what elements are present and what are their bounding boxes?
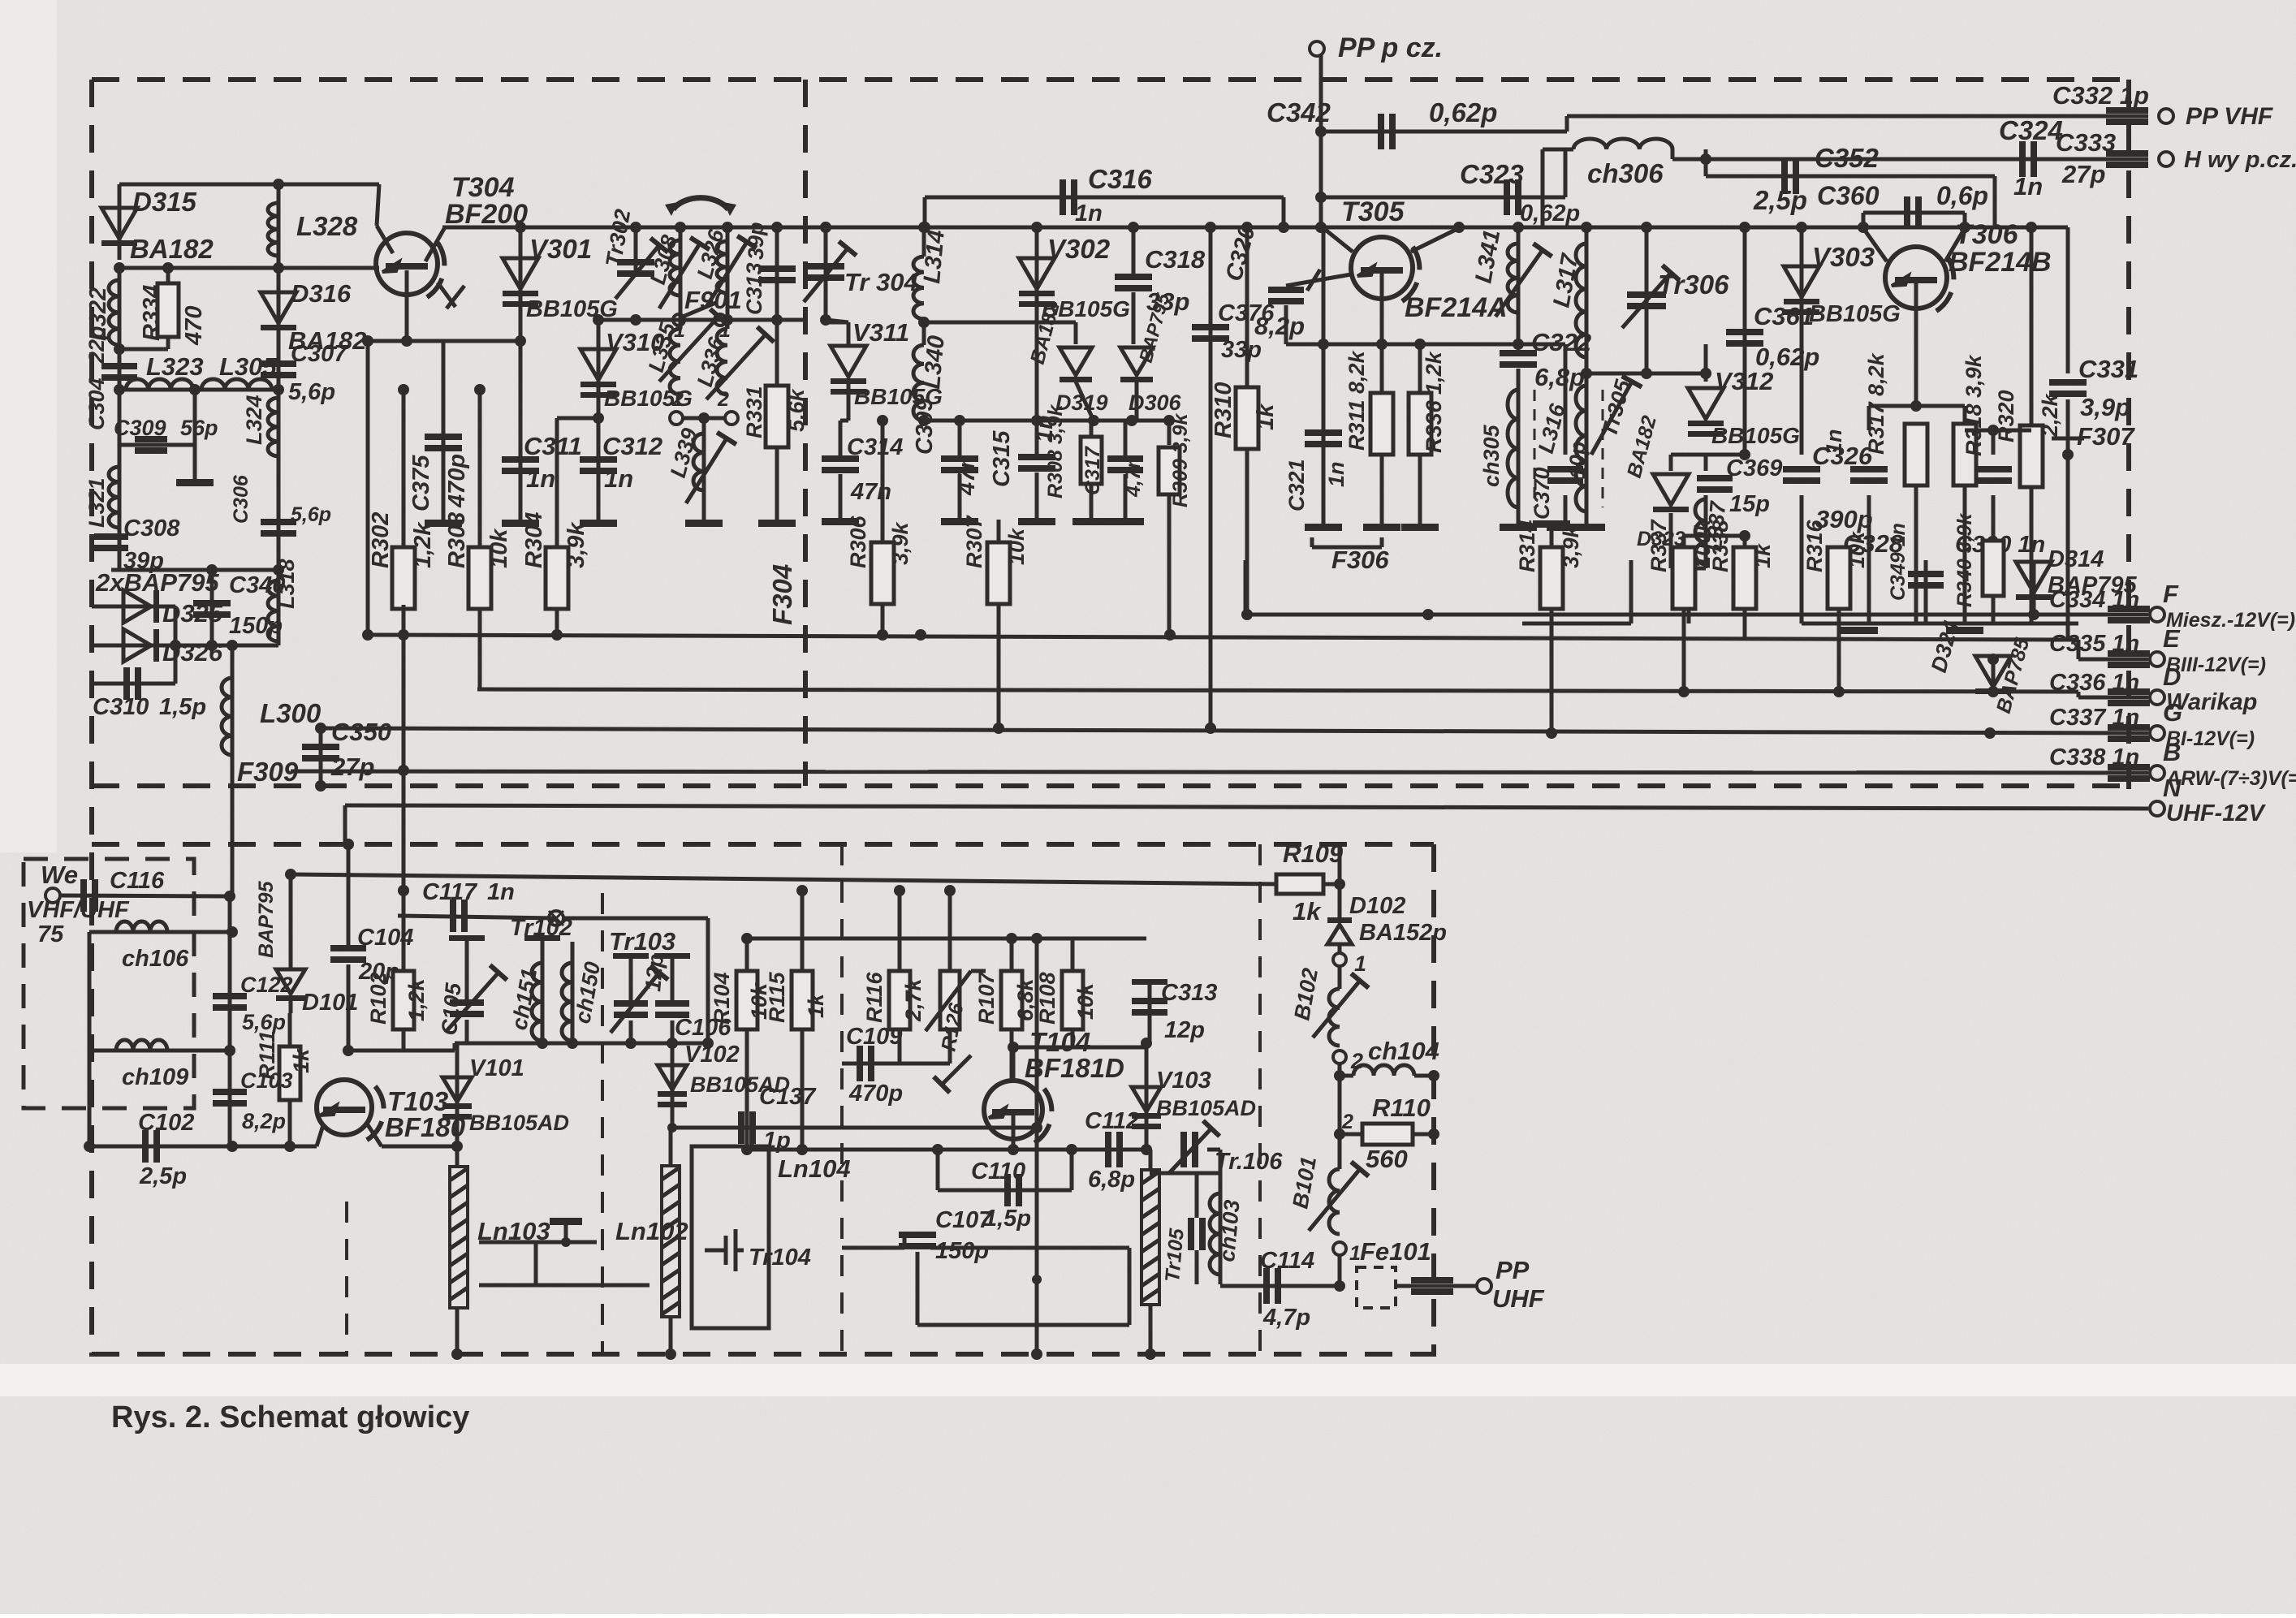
diode D319 BA182	[1074, 322, 1078, 344]
capacitor C106	[671, 958, 675, 1003]
node Tr102	[549, 911, 563, 925]
capacitor C317 4,7n	[1124, 421, 1128, 458]
svg-text:8,2p: 8,2p	[242, 1109, 286, 1133]
svg-text:1: 1	[1354, 951, 1366, 976]
inductor ch104	[1353, 1065, 1414, 1076]
svg-text:Tr306: Tr306	[1658, 270, 1729, 300]
capacitor C352 2,5p	[1781, 158, 1799, 194]
diode V311 BB105G	[847, 322, 851, 344]
dashed box: We VHF/UHF input	[24, 859, 194, 1108]
capacitor C307 56p	[277, 357, 281, 390]
transistor T103 BF180	[317, 1080, 384, 1143]
svg-text:C375: C375	[408, 455, 434, 511]
svg-text:L324: L324	[242, 395, 266, 445]
bus B (ARW)	[291, 771, 2148, 773]
wire T304 emitter lead up-left	[377, 184, 379, 226]
diode V101 BB105AD	[455, 1043, 460, 1146]
wire R108 bottom to V103 column	[1072, 1046, 1146, 1050]
diode D306 BAP795	[1132, 292, 1136, 344]
diode D316 BA182	[277, 268, 281, 357]
svg-text:R316: R316	[1802, 519, 1827, 572]
capacitor C308 39p	[118, 532, 122, 568]
svg-text:BB105G: BB105G	[1711, 423, 1800, 448]
svg-text:Tr105: Tr105	[1161, 1227, 1189, 1284]
svg-text:VHF/UHF: VHF/UHF	[27, 897, 130, 923]
svg-text:V102: V102	[684, 1042, 740, 1068]
svg-text:B: B	[2163, 738, 2181, 766]
svg-text:470p: 470p	[848, 1081, 903, 1107]
wire T104 emitter top	[1012, 1047, 1016, 1081]
capacitor C361 0,62p	[1743, 227, 1747, 455]
svg-text:4,7p: 4,7p	[1262, 1305, 1310, 1331]
wire C102 row y=1412	[89, 1145, 317, 1149]
wire B101 to bottom row	[1338, 1255, 1342, 1286]
wire L341 column	[1517, 227, 1521, 344]
svg-text:ch104: ch104	[1368, 1037, 1439, 1065]
svg-text:10k: 10k	[486, 528, 512, 568]
transistor T305 BF214A	[1351, 237, 1419, 304]
diode V102 BB105AD	[671, 1043, 675, 1128]
capacitor C350 27p	[319, 728, 323, 786]
svg-text:C335 1n: C335 1n	[2049, 631, 2139, 657]
svg-text:1n: 1n	[2013, 172, 2043, 201]
wire V102 bottom row / C137	[672, 1126, 1037, 1130]
svg-text:5,6p: 5,6p	[291, 503, 331, 526]
svg-text:1,2k: 1,2k	[404, 977, 429, 1021]
dashed mechanical link x=427	[345, 1202, 348, 1357]
svg-text:C103: C103	[240, 1068, 293, 1093]
wire F307 to BIII bus	[2066, 455, 2070, 640]
svg-text:Tr103: Tr103	[609, 927, 675, 956]
svg-text:T305: T305	[1341, 196, 1405, 227]
wire C352 riser right	[1993, 176, 1997, 227]
capacitor C315 1n	[1035, 421, 1039, 455]
svg-text:PP VHF: PP VHF	[2186, 103, 2273, 130]
dashed border: upper box top edge	[92, 77, 2129, 82]
diode D101 BAP795	[289, 874, 293, 968]
wire jog C342-PPVHF	[1565, 116, 1569, 132]
svg-text:ch106: ch106	[122, 946, 189, 972]
wire D323/L337 bottoms	[1669, 513, 1673, 568]
terminal F Miesz	[2150, 607, 2164, 622]
svg-text:R309 3,9k: R309 3,9k	[1169, 413, 1192, 507]
resistor R108 10k	[1071, 938, 1075, 974]
capacitor C313b 12p	[1148, 982, 1152, 1043]
svg-text:R304: R304	[521, 512, 547, 568]
capacitor C376 33p	[1209, 227, 1213, 728]
svg-text:Tr 304: Tr 304	[844, 268, 918, 296]
svg-text:1n: 1n	[1822, 429, 1846, 455]
svg-text:L328: L328	[296, 211, 358, 241]
diode D314 BAP795	[2032, 560, 2036, 615]
diode D315 BA182	[118, 184, 122, 260]
resistor R104 10k	[745, 938, 749, 974]
capacitor C337 1n	[2108, 724, 2150, 742]
svg-text:R320: R320	[1994, 390, 2018, 442]
resistor R314 3,9k	[1550, 524, 1554, 548]
diode D325 BAP795	[92, 605, 175, 609]
svg-text:3,9k: 3,9k	[888, 520, 913, 565]
dashed border: lower box right edge	[1431, 844, 1436, 1357]
inductor B101 variable	[1338, 1134, 1342, 1169]
svg-text:75: 75	[37, 921, 64, 947]
resonator box Ln104	[692, 1146, 769, 1328]
svg-text:V302: V302	[1047, 234, 1111, 264]
svg-text:C105: C105	[437, 982, 466, 1037]
svg-text:C333: C333	[2056, 128, 2116, 157]
svg-text:C337 1n: C337 1n	[2049, 705, 2139, 731]
svg-text:R334: R334	[139, 285, 165, 341]
transformer Fe101 dashed box	[1357, 1267, 1396, 1308]
resistor R338 1k	[1743, 536, 1747, 548]
svg-text:6,8k: 6,8k	[1013, 977, 1038, 1021]
inductor ch306	[1573, 139, 1672, 149]
svg-text:C399: C399	[912, 399, 938, 455]
diode V302 BB105G	[1035, 227, 1039, 322]
bus E (BIII-12V)	[368, 635, 2078, 640]
capacitor C117 1n	[450, 900, 468, 932]
svg-text:Ln102: Ln102	[615, 1217, 688, 1245]
svg-text:PP: PP	[1495, 1256, 1530, 1284]
capacitor C313 39p	[775, 227, 779, 320]
inductor L322	[118, 268, 122, 357]
inductor L339	[702, 418, 706, 520]
svg-text:C361: C361	[1754, 302, 1814, 330]
svg-text:1n: 1n	[487, 879, 515, 905]
svg-text:5,6k: 5,6k	[784, 387, 809, 432]
svg-text:V301: V301	[529, 234, 592, 264]
inductor L335	[679, 320, 683, 329]
svg-text:L314: L314	[919, 229, 950, 285]
node D315/L322	[114, 262, 125, 274]
bus F (Miesz-12V)	[1246, 613, 2148, 617]
svg-text:C107: C107	[935, 1207, 993, 1233]
svg-text:R109: R109	[1283, 839, 1344, 868]
diode V310 BB105G varicap	[597, 320, 601, 418]
bus N (UHF-12V)	[345, 805, 2148, 809]
wire D-box right	[174, 606, 178, 645]
wire R102 bottom row to C105	[348, 1049, 455, 1053]
svg-text:R308 3,9k: R308 3,9k	[1044, 404, 1067, 498]
svg-text:D102: D102	[1349, 893, 1405, 919]
wire C342 branch	[1321, 130, 1567, 134]
capacitor C306 5,6p	[277, 463, 281, 570]
wire T306 base down	[1914, 283, 1918, 406]
capacitor C107 150p	[842, 1246, 904, 1250]
svg-text:Tr104: Tr104	[749, 1245, 811, 1271]
inductor L337	[1704, 495, 1708, 568]
terminal PP UHF	[1477, 1279, 1491, 1293]
wire left column to C102	[88, 1051, 92, 1146]
dashed divider F304	[803, 80, 808, 786]
svg-text:H wy p.cz.: H wy p.cz.	[2184, 147, 2296, 173]
svg-text:D314: D314	[2048, 546, 2104, 572]
vertical x=1277 lower	[1035, 938, 1039, 1128]
svg-text:R311 8,2k: R311 8,2k	[1344, 349, 1369, 451]
wire T304 collector lead to bus	[425, 227, 445, 261]
resistor R109 1k	[1276, 874, 1323, 894]
wire R302 column down through buses	[402, 605, 406, 974]
inductor ch106	[89, 930, 232, 934]
svg-text:BAP795: BAP795	[255, 880, 278, 958]
switch F901 arc	[673, 198, 728, 209]
svg-text:4,7n: 4,7n	[1122, 456, 1145, 498]
capacitor C312 1n	[597, 418, 601, 520]
wire D102 column from dashed top	[1338, 844, 1342, 921]
svg-text:Tr.106: Tr.106	[1215, 1149, 1283, 1175]
wire T305 emitter lead	[1323, 228, 1353, 252]
capacitor C310 1,5p	[92, 682, 175, 686]
wire R334 bottom to L322	[119, 347, 168, 352]
wire ch306 riser	[1564, 149, 1568, 197]
diode V301 BB105G varicap	[519, 227, 523, 341]
svg-text:1: 1	[719, 319, 731, 342]
terminal N UHF-12V	[2150, 801, 2164, 816]
svg-text:Miesz.-12V(=): Miesz.-12V(=)	[2166, 609, 2295, 632]
wire PPpcz column to y=424	[1322, 227, 1326, 344]
wire: main bus T304-T305-T306 emitter/collector line	[442, 226, 2068, 230]
svg-text:6,8p: 6,8p	[1088, 1167, 1135, 1193]
svg-text:V101: V101	[469, 1055, 524, 1081]
terminal 1 of B102	[1338, 943, 1342, 953]
switch lever F901	[673, 314, 684, 326]
svg-text:BB105AD: BB105AD	[1156, 1096, 1256, 1120]
svg-text:R307: R307	[962, 514, 986, 568]
svg-text:R336 1,2k: R336 1,2k	[1422, 350, 1446, 453]
svg-text:E: E	[2163, 624, 2181, 653]
dashed border F309 line	[92, 783, 2129, 788]
coupling loop Ln103-Ln102 ground	[479, 1240, 536, 1245]
inductor L314	[922, 227, 926, 257]
hatched bar Ln102	[662, 1166, 680, 1317]
svg-text:560: 560	[1366, 1145, 1408, 1173]
svg-text:N: N	[2163, 774, 2182, 802]
svg-text:C350: C350	[331, 718, 391, 746]
terminal D Warikap	[2150, 690, 2164, 705]
resistor R316 10k	[1837, 548, 1841, 623]
dashed border: lower box top (C115 line)	[92, 842, 1434, 847]
wire C114 row y=1582	[1220, 1284, 1340, 1288]
junction dots on buses right	[1678, 686, 1690, 697]
choke F307	[2066, 399, 2070, 438]
resistor R320 2,2k	[2030, 227, 2034, 430]
svg-text:0,62p: 0,62p	[1755, 343, 1819, 371]
svg-text:0,62p: 0,62p	[1520, 201, 1580, 227]
svg-text:C109: C109	[846, 1024, 902, 1050]
wire y=795 row	[175, 644, 278, 648]
svg-text:C122: C122	[240, 973, 293, 997]
svg-text:Rys. 2. Schemat głowicy: Rys. 2. Schemat głowicy	[111, 1400, 469, 1435]
trimmer Tr103 cap	[629, 958, 633, 1003]
svg-text:F304: F304	[767, 564, 797, 625]
inductor L326	[726, 227, 730, 320]
wire C323 branch y=243	[1321, 196, 1565, 200]
resistor R311 8,2k	[1380, 344, 1384, 524]
capacitor C137 1p	[738, 1111, 756, 1144]
svg-text:3,9k: 3,9k	[1559, 524, 1583, 568]
capacitor C122 5,6p	[228, 896, 232, 1051]
wire C352 branch y=217	[1706, 175, 1995, 179]
svg-text:C352: C352	[1815, 143, 1880, 173]
capacitor C102 2,5p	[142, 1130, 160, 1163]
svg-text:L321: L321	[84, 477, 109, 528]
svg-text:C304: C304	[84, 378, 109, 430]
svg-text:ch306: ch306	[1587, 158, 1664, 188]
wire V103 top	[1145, 1043, 1149, 1080]
svg-text:R303: R303	[444, 512, 470, 568]
wire row y=420 under T304	[368, 339, 520, 343]
transistor T306 BF214B	[1885, 247, 1953, 313]
svg-text:C316: C316	[1088, 164, 1153, 194]
capacitor C349 1n	[1924, 560, 1928, 623]
svg-text:C102: C102	[138, 1110, 194, 1136]
svg-text:F: F	[2163, 580, 2179, 608]
capacitor C332 1p	[2106, 107, 2148, 125]
resistor R116 2,7k	[898, 891, 902, 974]
wire Tr102 to down bus	[563, 917, 708, 921]
capacitor C109 470p	[842, 1062, 900, 1066]
node C350 top/bottom	[315, 723, 326, 734]
capacitor C335 1n	[2108, 650, 2150, 668]
junction dots bus E	[915, 629, 926, 641]
hatched bar Ln103	[450, 1167, 468, 1308]
svg-text:2: 2	[717, 388, 729, 411]
svg-text:C342: C342	[1267, 97, 1331, 127]
svg-text:BB105AD: BB105AD	[469, 1111, 569, 1135]
svg-text:C306: C306	[230, 474, 252, 524]
wire y=480 row	[119, 388, 278, 392]
terminal We VHF/UHF	[45, 888, 60, 903]
svg-text:L318: L318	[274, 559, 299, 609]
shield F306 outline	[1244, 560, 1248, 615]
node row y=1285	[455, 1042, 708, 1046]
svg-text:1: 1	[1349, 1242, 1361, 1265]
trimmer Tr305	[1591, 376, 1642, 455]
svg-text:C311: C311	[524, 432, 582, 460]
wire ch306 left leg down	[1541, 149, 1545, 227]
svg-text:10k: 10k	[1004, 527, 1029, 565]
junction dots on main bus	[820, 222, 831, 233]
svg-text:ARW-(7÷3)V(=): ARW-(7÷3)V(=)	[2165, 767, 2296, 790]
node C323 branch	[1315, 192, 1327, 203]
wire T306 collector lead	[1945, 228, 1965, 261]
svg-text:BA152p: BA152p	[1359, 920, 1447, 946]
svg-text:BF214B: BF214B	[1949, 247, 2052, 278]
svg-text:47n: 47n	[954, 455, 980, 496]
svg-text:27p: 27p	[2061, 160, 2105, 188]
node C304 bottom	[114, 384, 125, 395]
svg-text:C313: C313	[742, 262, 766, 315]
svg-text:47n: 47n	[850, 479, 891, 505]
trimmer Tr105	[1188, 1218, 1206, 1250]
svg-text:ch305: ch305	[1479, 424, 1504, 487]
node C340 top	[206, 564, 218, 576]
inductor L323	[126, 379, 193, 390]
svg-text:D: D	[2163, 662, 2181, 691]
resistor R304 3,9k	[555, 418, 559, 635]
capacitor C340 150p	[210, 570, 214, 645]
svg-text:470p: 470p	[444, 454, 470, 508]
svg-text:L340: L340	[919, 334, 950, 390]
svg-text:D306: D306	[1129, 390, 1182, 415]
svg-text:C110: C110	[971, 1158, 1025, 1184]
svg-text:1k: 1k	[1293, 897, 1322, 925]
diode D324 BAP785	[1992, 659, 1996, 692]
svg-text:2,2k: 2,2k	[2038, 392, 2062, 438]
grounds row under T306	[1802, 622, 2078, 626]
wire R337/R338 tops	[1684, 534, 1745, 538]
svg-text:UHF-12V: UHF-12V	[2166, 800, 2267, 826]
svg-text:F306: F306	[1331, 546, 1389, 574]
svg-text:1n: 1n	[526, 464, 555, 493]
svg-text:56p: 56p	[180, 416, 218, 440]
svg-text:D315: D315	[132, 187, 197, 217]
terminal H wy p.cz.	[2159, 152, 2173, 166]
capacitor C316 1n loop	[925, 196, 1284, 200]
inductor ch150	[571, 942, 575, 1043]
terminal 2 of B102	[1333, 1051, 1346, 1064]
svg-text:C112: C112	[1085, 1108, 1139, 1134]
wire T306 emitter lead	[1863, 228, 1887, 261]
svg-text:V103: V103	[1156, 1068, 1211, 1094]
capacitor C342 0,62p	[1378, 114, 1396, 149]
inductor L318	[277, 570, 281, 645]
svg-text:C331: C331	[2078, 355, 2138, 383]
svg-text:R338: R338	[1708, 520, 1733, 572]
capacitor C338 1n	[2108, 764, 2150, 782]
wire R320/C390 top row	[1965, 429, 2031, 433]
capacitor C331 3,9p	[2066, 227, 2070, 373]
svg-text:C116: C116	[110, 868, 165, 894]
svg-text:C314: C314	[847, 434, 903, 460]
svg-text:C309: C309	[114, 416, 166, 440]
inductor ch109	[88, 932, 92, 1051]
wire top PP VHF line y=143	[1567, 114, 2148, 119]
dashed border: upper box right edge	[2126, 80, 2131, 790]
capacitor C336 1n	[2108, 688, 2150, 706]
svg-text:ch109: ch109	[122, 1064, 188, 1090]
node row y=424 under T305	[1286, 343, 1518, 347]
diode D323 BA182	[1671, 453, 1706, 457]
node: PPpcz/C342 junction	[1315, 126, 1327, 137]
svg-text:R340 3,9k: R340 3,9k	[1953, 513, 1976, 607]
capacitor C311 1n	[519, 341, 523, 520]
capacitor C399 47n	[958, 421, 962, 458]
svg-text:C332 1p: C332 1p	[2052, 81, 2149, 110]
svg-text:C106: C106	[675, 1015, 732, 1041]
wire C361 bottom row	[1706, 453, 1745, 457]
transistor T304 BF200	[376, 233, 444, 300]
capacitor C375 470p	[442, 341, 446, 520]
svg-text:UHF: UHF	[1492, 1284, 1545, 1313]
wire ch103 top to V103 row	[1150, 1171, 1220, 1176]
svg-text:470: 470	[181, 306, 207, 346]
svg-text:C324: C324	[1999, 115, 2063, 145]
svg-text:R107: R107	[974, 970, 999, 1025]
svg-text:10k: 10k	[1845, 530, 1869, 568]
dashed mechanical link x=742	[601, 893, 604, 1357]
svg-text:D316: D316	[291, 279, 352, 308]
dashed border: lower box bottom	[92, 1352, 1434, 1357]
svg-text:1,2k: 1,2k	[410, 521, 436, 568]
svg-text:1k: 1k	[1253, 403, 1279, 430]
capacitor PP UHF feedthrough	[1411, 1277, 1453, 1295]
svg-text:V311: V311	[852, 318, 909, 347]
node L328 top	[273, 179, 284, 190]
svg-text:10k: 10k	[747, 982, 771, 1020]
capacitor C322 6,8p	[1500, 350, 1537, 368]
dashed border: left edge	[89, 80, 94, 1357]
